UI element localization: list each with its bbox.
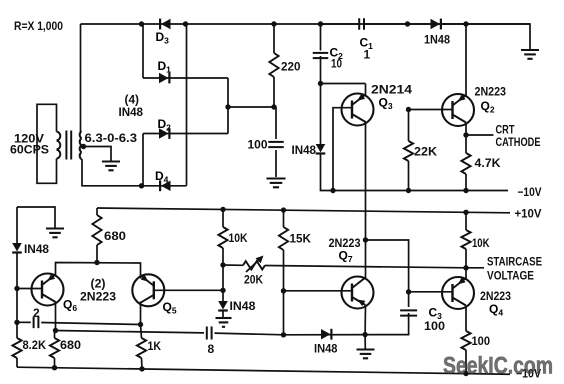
svg-text:VOLTAGE: VOLTAGE (487, 269, 534, 283)
wire 10K right bottom (465, 249, 467, 268)
svg-text:IN48: IN48 (119, 105, 144, 119)
label 2N223 pair (80, 290, 116, 304)
label 2N214 (371, 83, 412, 97)
wire Q7 ground stub (364, 335, 366, 349)
wire C2 top (320, 24, 322, 51)
node Q7 base tee (281, 288, 286, 293)
svg-text:STAIRCASE: STAIRCASE (487, 255, 542, 269)
ground Q7 emitter (357, 350, 375, 359)
wire D1-D2 cathode vertical (227, 78, 229, 134)
wire 22K top (408, 110, 410, 142)
svg-text:1K: 1K (148, 339, 162, 353)
svg-text:2N223: 2N223 (475, 85, 507, 99)
svg-text:100: 100 (248, 138, 268, 152)
capacitor 100 filter (268, 142, 284, 147)
label 60CPS (10, 143, 49, 157)
node center tap (81, 144, 86, 149)
svg-text:680: 680 (60, 338, 81, 352)
wire 15K bottom run (283, 250, 285, 335)
label 2N223 Q4 (480, 289, 511, 303)
svg-text:IN48: IN48 (314, 342, 338, 356)
label -10V bottom (516, 367, 541, 381)
label C1 value (364, 48, 371, 62)
svg-text:6.3-0-6.3: 6.3-0-6.3 (85, 131, 138, 145)
ground center tap (102, 162, 120, 171)
svg-text:2N223: 2N223 (480, 289, 511, 303)
svg-text:1: 1 (364, 48, 371, 62)
label CRT (496, 123, 516, 137)
node Q3 emitter branch (363, 237, 368, 242)
node 10K/20K (220, 262, 225, 267)
label 680 bottom (60, 338, 81, 352)
svg-text:IN48: IN48 (24, 242, 49, 256)
ground x223 (216, 318, 232, 327)
diode D4 (160, 180, 170, 191)
wire 1K bottom (141, 358, 144, 369)
node Q6 emitter (53, 328, 58, 333)
wire 220 top (273, 24, 275, 53)
node C2 bottom (318, 81, 323, 86)
wire CRT cathode stub (466, 134, 494, 136)
wire left vertical x17 mid (16, 253, 18, 339)
wire staircase run (223, 264, 243, 266)
node 100 on bottom rail (463, 371, 468, 376)
label 4.7K (475, 156, 501, 170)
label D4 (155, 169, 169, 185)
transistor Q3 (342, 94, 374, 126)
svg-text:2: 2 (33, 306, 40, 320)
node top rail / 22K (405, 21, 410, 26)
wire 20K to staircase node (265, 266, 466, 268)
node 15K on +10V (281, 207, 286, 212)
node 680 collector (94, 260, 99, 265)
svg-text:220: 220 (281, 60, 301, 74)
wire Q4 base (409, 291, 453, 293)
transformer T1 secondary winding (80, 131, 82, 159)
wire D2/D4 branch vertical (142, 134, 144, 187)
wire Q2 base (409, 109, 453, 111)
node rectifier output (225, 104, 230, 109)
node 680b on bottom rail (52, 365, 57, 370)
label C2 (330, 46, 344, 62)
wire +10V rail (97, 208, 510, 213)
node x283 bottom (281, 332, 286, 337)
resistor 680 top (92, 215, 101, 245)
node cap2 tee (14, 320, 19, 325)
transformer T1 primary winding (57, 132, 61, 159)
capacitor 8 (207, 327, 212, 340)
node top rail / Q2 collector (463, 21, 468, 26)
transistor Q2 (442, 94, 474, 126)
label 1K (148, 339, 162, 353)
wire Q3 emitter vertical long (365, 122, 367, 279)
resistor 1K (137, 338, 146, 358)
label Q4 (489, 302, 503, 318)
transistor Q6 (32, 274, 64, 306)
label 2N223 Q2 (475, 85, 507, 99)
wire top rail to Q2 collector node (408, 23, 467, 25)
svg-text:(2): (2) (91, 277, 106, 291)
label 2N223 Q7 (329, 236, 361, 250)
svg-text:60CPS: 60CPS (10, 143, 49, 157)
wire cap-2 to Q5 emitter node (41, 323, 140, 325)
label +10V (515, 207, 542, 221)
wire 15K top (283, 210, 285, 227)
diode CR3 1N48 left (12, 243, 22, 253)
wire Q6/Q5 collector crossbar (56, 263, 141, 279)
wire 10K right top (465, 213, 467, 230)
label 120V (14, 132, 44, 146)
capacitor 2 (34, 317, 39, 329)
wire 10K left bottom (222, 248, 224, 265)
resistor 100 emitter (461, 331, 470, 350)
label 1N48 quad (119, 105, 144, 119)
wire Q6 base (17, 288, 42, 290)
label 10K left (229, 231, 248, 245)
node Q3 base on -10V (330, 188, 335, 193)
wire top rail (81, 23, 531, 25)
node Q4 base tee (406, 289, 411, 294)
diode CR2 1N48 mid (316, 144, 326, 154)
wire 4.7K top (465, 135, 467, 153)
wire rectifier output (228, 106, 276, 108)
node staircase (463, 265, 468, 270)
resistor 10K right (461, 230, 470, 249)
wire 1N48 to -10V rail corner (321, 155, 509, 191)
label Q3 (379, 96, 393, 112)
ground bottom-left (46, 229, 64, 238)
resistor 680 bottom (50, 338, 59, 358)
label C3 (429, 306, 443, 322)
resistor 8.2K (12, 338, 21, 358)
wire Q2 collector (465, 24, 467, 96)
label -10V (518, 185, 542, 199)
resistor 15K (279, 227, 288, 250)
node Q7 emitter ground (362, 332, 367, 337)
svg-text:−10V: −10V (518, 185, 542, 199)
wire cap-8 to x283 node (215, 333, 284, 335)
svg-text:IN48: IN48 (292, 143, 317, 157)
resistor 4.7K (461, 153, 470, 174)
transistor Q5 (132, 274, 164, 306)
wire 10K/20K node to diode (222, 265, 224, 301)
svg-text:15K: 15K (290, 232, 312, 246)
label C2 value (331, 57, 342, 71)
wire Q6 emitter to cap-8 (56, 331, 205, 333)
svg-text:2N223: 2N223 (80, 290, 116, 304)
capacitor C2 (313, 53, 329, 58)
wire center tap (84, 147, 112, 162)
wire cap100 to ground (275, 150, 277, 177)
wire 4.7K bottom (465, 174, 467, 191)
label D1 (158, 59, 172, 75)
wire Q5 emitter (140, 302, 142, 325)
node CRT cathode (463, 132, 468, 137)
wire D4 rail (transformer bottom) (82, 159, 187, 186)
wire C2 bottom to Q3 collector node (320, 56, 322, 84)
svg-text:22K: 22K (414, 145, 437, 159)
wire left vertical from top rail to transformer (80, 24, 82, 132)
wire Q7 collector branch (366, 240, 409, 307)
resistor 22K (404, 141, 413, 161)
label D3 (156, 30, 170, 46)
wire 22K bottom (408, 161, 410, 191)
label CATHODE (496, 135, 541, 149)
label 8.2K (23, 338, 47, 352)
wire D3 branch vertical x186 (186, 24, 188, 186)
wire Q4 emitter (465, 306, 467, 331)
node D4 rail (139, 183, 144, 188)
svg-text:10K: 10K (229, 231, 248, 245)
svg-text:100: 100 (424, 319, 445, 333)
wire 680b top (54, 331, 56, 339)
svg-text:10K: 10K (472, 236, 490, 250)
capacitor C3 (400, 310, 417, 315)
label Q2 (481, 99, 495, 115)
wire cap100 top (275, 107, 277, 139)
label 220 (281, 60, 301, 74)
wire Q7 emitter (364, 306, 366, 335)
ground filter cap (267, 179, 286, 188)
resistor 10K left (218, 227, 227, 248)
label 1N48 mid (292, 143, 317, 157)
potentiometer 20K (243, 256, 265, 273)
node Q6 base tee (14, 286, 19, 291)
label (4) (125, 93, 140, 107)
wire cap-2 branch (17, 321, 31, 323)
diode CR1 1N48 top (431, 19, 441, 30)
transformer T1 primary loop (37, 104, 57, 183)
svg-text:8.2K: 8.2K (23, 338, 47, 352)
svg-text:+10V: +10V (515, 207, 542, 221)
wire C1 right (364, 23, 407, 25)
wire D3/D1 branch vertical (142, 24, 144, 78)
wire 680 bottom to collector node (96, 245, 98, 263)
wire staircase stub (466, 267, 484, 269)
wire diode branch below C2 (320, 84, 322, 145)
wire Q3 collector horizontal (321, 83, 366, 85)
node 220 bottom (271, 104, 276, 109)
svg-text:CATHODE: CATHODE (496, 135, 541, 149)
node top rail / x186 (183, 21, 188, 26)
wire top-left ground hook (17, 207, 55, 228)
wire left vertical x17 upper (16, 207, 18, 243)
svg-text:1N48: 1N48 (424, 33, 450, 47)
svg-text:8: 8 (208, 342, 215, 356)
wire 10K left top (222, 210, 224, 228)
node top rail / D1 branch (139, 21, 144, 26)
label STAIRCASE (487, 255, 542, 269)
svg-text:2N214: 2N214 (371, 83, 412, 97)
svg-text:IN48: IN48 (230, 299, 256, 313)
wire secondary top (81, 130, 82, 132)
svg-text:680: 680 (104, 229, 126, 243)
node Q5 emitter / 1K (138, 322, 143, 327)
wire Q4 collector (465, 268, 467, 279)
label 10K right (472, 236, 490, 250)
wire 1K top (141, 325, 142, 339)
label C3 value (424, 319, 445, 333)
ground top right (521, 50, 539, 59)
label VOLTAGE (487, 269, 534, 283)
label 680 top (104, 229, 126, 243)
node top rail / C2 (318, 21, 323, 26)
label 15K (290, 232, 312, 246)
node 10K on +10V (220, 207, 225, 212)
wire 680 top hook (96, 208, 98, 215)
wire bottom rail (17, 367, 510, 374)
label 6.3-0-6.3 (85, 131, 138, 145)
wire 100 bottom (465, 350, 467, 374)
wire Q3 base (333, 108, 352, 191)
label Q5 (163, 300, 177, 316)
svg-text:4.7K: 4.7K (475, 156, 501, 170)
wire diode to ground x223 (222, 311, 224, 318)
label Q7 (339, 249, 353, 265)
node Q2 base / 22K (406, 107, 411, 112)
wire Q3 collector vertical (365, 84, 367, 96)
node 22K on -10V (406, 188, 411, 193)
diode D2 (159, 128, 169, 139)
label 2 (33, 306, 40, 320)
wire C1 left (321, 23, 360, 25)
svg-text:SeekIC.com: SeekIC.com (443, 353, 553, 380)
resistor 220 (269, 53, 278, 77)
wire 680b bottom (54, 358, 56, 368)
label 20K (244, 273, 263, 287)
diode CR4 1N48 x223 (218, 301, 228, 311)
wire C3 bottom corner (284, 313, 409, 335)
node 4.7K on -10V (463, 188, 468, 193)
label 8 (208, 342, 215, 356)
wire D1 anode horizontal (143, 77, 228, 79)
svg-text:100: 100 (472, 334, 491, 348)
label Q6 (63, 298, 77, 314)
label IN48 bottom (314, 342, 338, 356)
diode D3 (160, 19, 170, 30)
wire 8.2K bottom (16, 358, 18, 367)
wire Q6 emitter (55, 302, 57, 331)
svg-text:10: 10 (331, 57, 342, 71)
label IN48 x223 (230, 299, 256, 313)
node Q5 base (220, 288, 225, 293)
node Q4 10K on +10V (463, 210, 468, 215)
label 1N48 top (424, 33, 450, 47)
wire top right to ground (466, 24, 530, 50)
label 1N48 left (24, 242, 49, 256)
node top rail / 220 (271, 21, 276, 26)
node 1K on bottom rail (139, 366, 144, 371)
wire Q7 base (284, 290, 353, 292)
diode D1 (159, 73, 169, 84)
label 100 filter (248, 138, 268, 152)
svg-text:R=X 1,000: R=X 1,000 (14, 19, 63, 33)
svg-text:20K: 20K (244, 273, 263, 287)
transformer T1 core (66, 131, 71, 160)
wire 220 bottom (273, 77, 275, 107)
label (2) (91, 277, 106, 291)
label D2 (158, 117, 172, 133)
capacitor C1 (359, 18, 364, 30)
watermark SeekIC.com (443, 353, 553, 380)
label 100 emitter (472, 334, 491, 348)
transistor Q4 (442, 277, 474, 309)
label C1 (360, 36, 374, 52)
label R=X 1,000 (14, 19, 63, 33)
wire Q5 base (154, 289, 223, 291)
wire Q2 emitter (465, 123, 467, 135)
diode CR5 1N48 bottom (321, 329, 331, 340)
wire D2 anode horizontal (143, 133, 228, 135)
transistor Q7 (342, 277, 374, 309)
label 22K (414, 145, 437, 159)
